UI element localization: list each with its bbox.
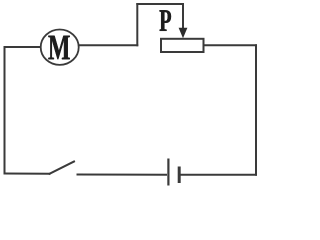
wire: top wiper branch: [137, 3, 183, 5]
battery long plate (+): [167, 159, 169, 186]
wiper arrowhead: [179, 28, 188, 38]
motor label M: [48, 36, 69, 59]
wire: bottom left to switch: [5, 173, 50, 175]
wire: wiper arrow shaft: [182, 4, 184, 30]
wire: motor right lead: [79, 44, 138, 46]
wire: switch to battery: [77, 174, 168, 176]
wire: riser to wiper branch: [136, 4, 138, 45]
switch (open blade): [50, 162, 75, 174]
wire: potentiometer right lead: [204, 44, 256, 46]
potentiometer P body: [161, 39, 204, 52]
wire: right rail: [255, 45, 257, 175]
motor M circle: [41, 30, 79, 65]
wire: battery to right rail: [181, 174, 256, 176]
wire: left rail: [4, 47, 6, 174]
label P: [159, 10, 171, 30]
wire: motor left lead: [5, 46, 42, 48]
battery short plate (-): [178, 167, 181, 184]
